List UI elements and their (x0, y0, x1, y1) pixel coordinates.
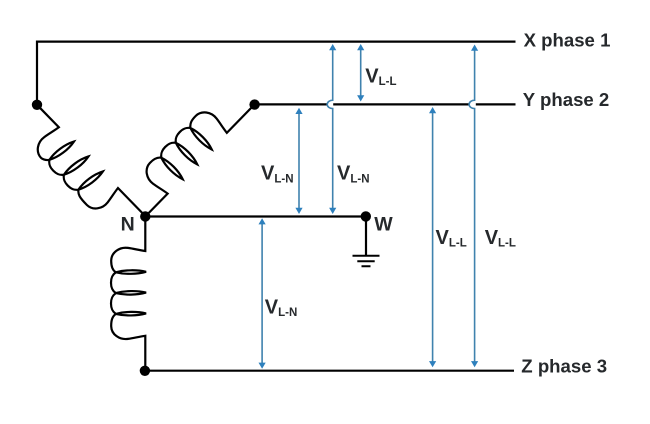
svg-text:Z phase 3: Z phase 3 (521, 356, 607, 377)
svg-text:N: N (121, 213, 135, 235)
svg-text:VL-N: VL-N (265, 296, 298, 319)
svg-text:W: W (374, 214, 393, 236)
svg-text:VL-L: VL-L (365, 66, 396, 89)
svg-text:VL-N: VL-N (261, 163, 294, 186)
svg-text:VL-L: VL-L (485, 227, 516, 250)
svg-text:VL-L: VL-L (436, 227, 467, 250)
svg-text:Y phase 2: Y phase 2 (523, 89, 609, 110)
svg-text:X phase 1: X phase 1 (524, 29, 611, 50)
svg-text:VL-N: VL-N (337, 163, 370, 186)
